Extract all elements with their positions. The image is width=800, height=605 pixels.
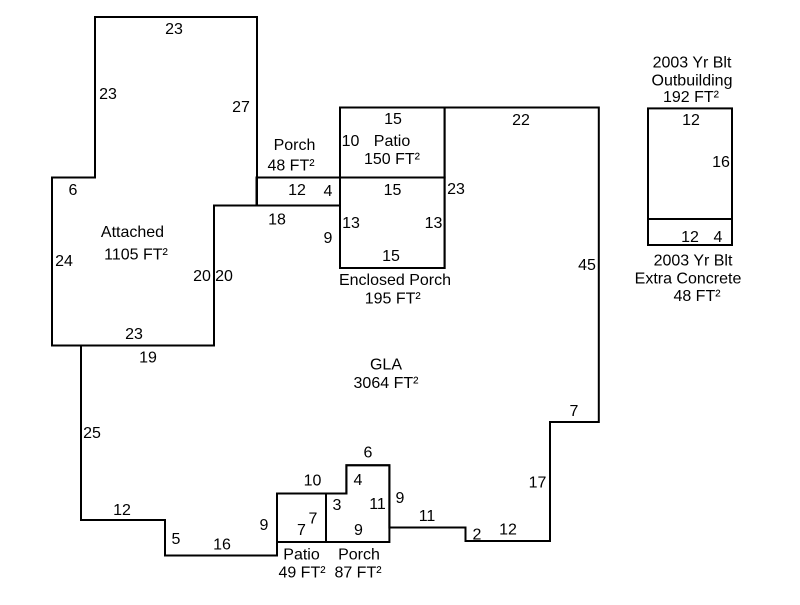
svg-text:6: 6 — [69, 182, 78, 199]
svg-text:Patio: Patio — [283, 547, 320, 564]
svg-text:9: 9 — [354, 522, 363, 539]
svg-text:13: 13 — [425, 215, 443, 232]
svg-text:4: 4 — [324, 183, 333, 200]
svg-text:Patio: Patio — [374, 133, 411, 150]
svg-text:2003 Yr Blt: 2003 Yr Blt — [653, 55, 732, 72]
bottom porch 87 outline — [326, 465, 389, 542]
svg-text:10: 10 — [304, 473, 322, 490]
svg-text:15: 15 — [384, 111, 402, 128]
svg-text:3: 3 — [333, 497, 342, 514]
svg-text:22: 22 — [512, 112, 530, 129]
svg-text:16: 16 — [213, 537, 231, 554]
svg-text:2: 2 — [473, 527, 482, 544]
svg-text:16: 16 — [712, 154, 730, 171]
svg-text:3064 FT²: 3064 FT² — [354, 375, 420, 392]
svg-text:Enclosed Porch: Enclosed Porch — [339, 272, 451, 289]
svg-text:48 FT²: 48 FT² — [267, 158, 315, 175]
svg-text:12: 12 — [288, 182, 306, 199]
svg-text:20: 20 — [193, 268, 211, 285]
svg-text:9: 9 — [260, 517, 269, 534]
svg-text:12: 12 — [681, 229, 699, 246]
svg-text:11: 11 — [419, 508, 436, 525]
svg-text:Extra Concrete: Extra Concrete — [635, 271, 742, 288]
svg-text:13: 13 — [342, 215, 360, 232]
svg-text:24: 24 — [55, 253, 73, 270]
svg-text:45: 45 — [578, 257, 596, 274]
svg-text:49 FT²: 49 FT² — [278, 565, 326, 582]
porch 48 box — [257, 178, 341, 206]
svg-text:15: 15 — [382, 248, 400, 265]
svg-text:12: 12 — [682, 112, 700, 129]
svg-text:12: 12 — [499, 522, 517, 539]
svg-text:Porch: Porch — [338, 547, 380, 564]
svg-text:1105 FT²: 1105 FT² — [104, 247, 168, 264]
svg-text:18: 18 — [268, 212, 286, 229]
svg-text:7: 7 — [297, 522, 306, 539]
svg-text:48 FT²: 48 FT² — [673, 288, 721, 305]
svg-text:192 FT²: 192 FT² — [663, 89, 720, 106]
patio 150 box — [340, 108, 445, 178]
outbuilding box — [648, 108, 732, 219]
enclosed porch box — [340, 178, 445, 269]
svg-text:2003 Yr Blt: 2003 Yr Blt — [654, 253, 733, 270]
svg-text:7: 7 — [570, 403, 579, 420]
svg-text:17: 17 — [529, 475, 547, 492]
svg-text:11: 11 — [369, 496, 386, 513]
svg-text:25: 25 — [83, 425, 101, 442]
svg-text:7: 7 — [309, 511, 318, 528]
svg-text:20: 20 — [215, 268, 233, 285]
svg-text:23: 23 — [125, 326, 143, 343]
svg-text:10: 10 — [342, 133, 360, 150]
svg-text:23: 23 — [165, 21, 183, 38]
GLA outline — [81, 108, 599, 556]
svg-text:Porch: Porch — [274, 137, 316, 154]
svg-text:19: 19 — [139, 350, 157, 367]
svg-text:GLA: GLA — [370, 357, 402, 374]
bottom patio 49 box — [277, 494, 326, 543]
svg-text:23: 23 — [99, 86, 117, 103]
svg-text:87 FT²: 87 FT² — [334, 565, 382, 582]
svg-text:Outbuilding: Outbuilding — [652, 73, 733, 90]
svg-text:15: 15 — [384, 182, 402, 199]
attached garage outline — [52, 17, 257, 346]
svg-text:9: 9 — [324, 230, 333, 247]
svg-text:150 FT²: 150 FT² — [364, 151, 421, 168]
svg-text:5: 5 — [172, 531, 181, 548]
svg-text:12: 12 — [113, 502, 131, 519]
svg-text:4: 4 — [714, 229, 723, 246]
svg-text:27: 27 — [232, 99, 250, 116]
svg-text:9: 9 — [396, 490, 405, 507]
svg-text:6: 6 — [364, 445, 373, 462]
svg-text:Attached: Attached — [101, 224, 164, 241]
svg-text:23: 23 — [447, 181, 465, 198]
svg-text:195 FT²: 195 FT² — [365, 290, 422, 307]
svg-text:4: 4 — [354, 472, 363, 489]
extra concrete box — [648, 219, 732, 245]
